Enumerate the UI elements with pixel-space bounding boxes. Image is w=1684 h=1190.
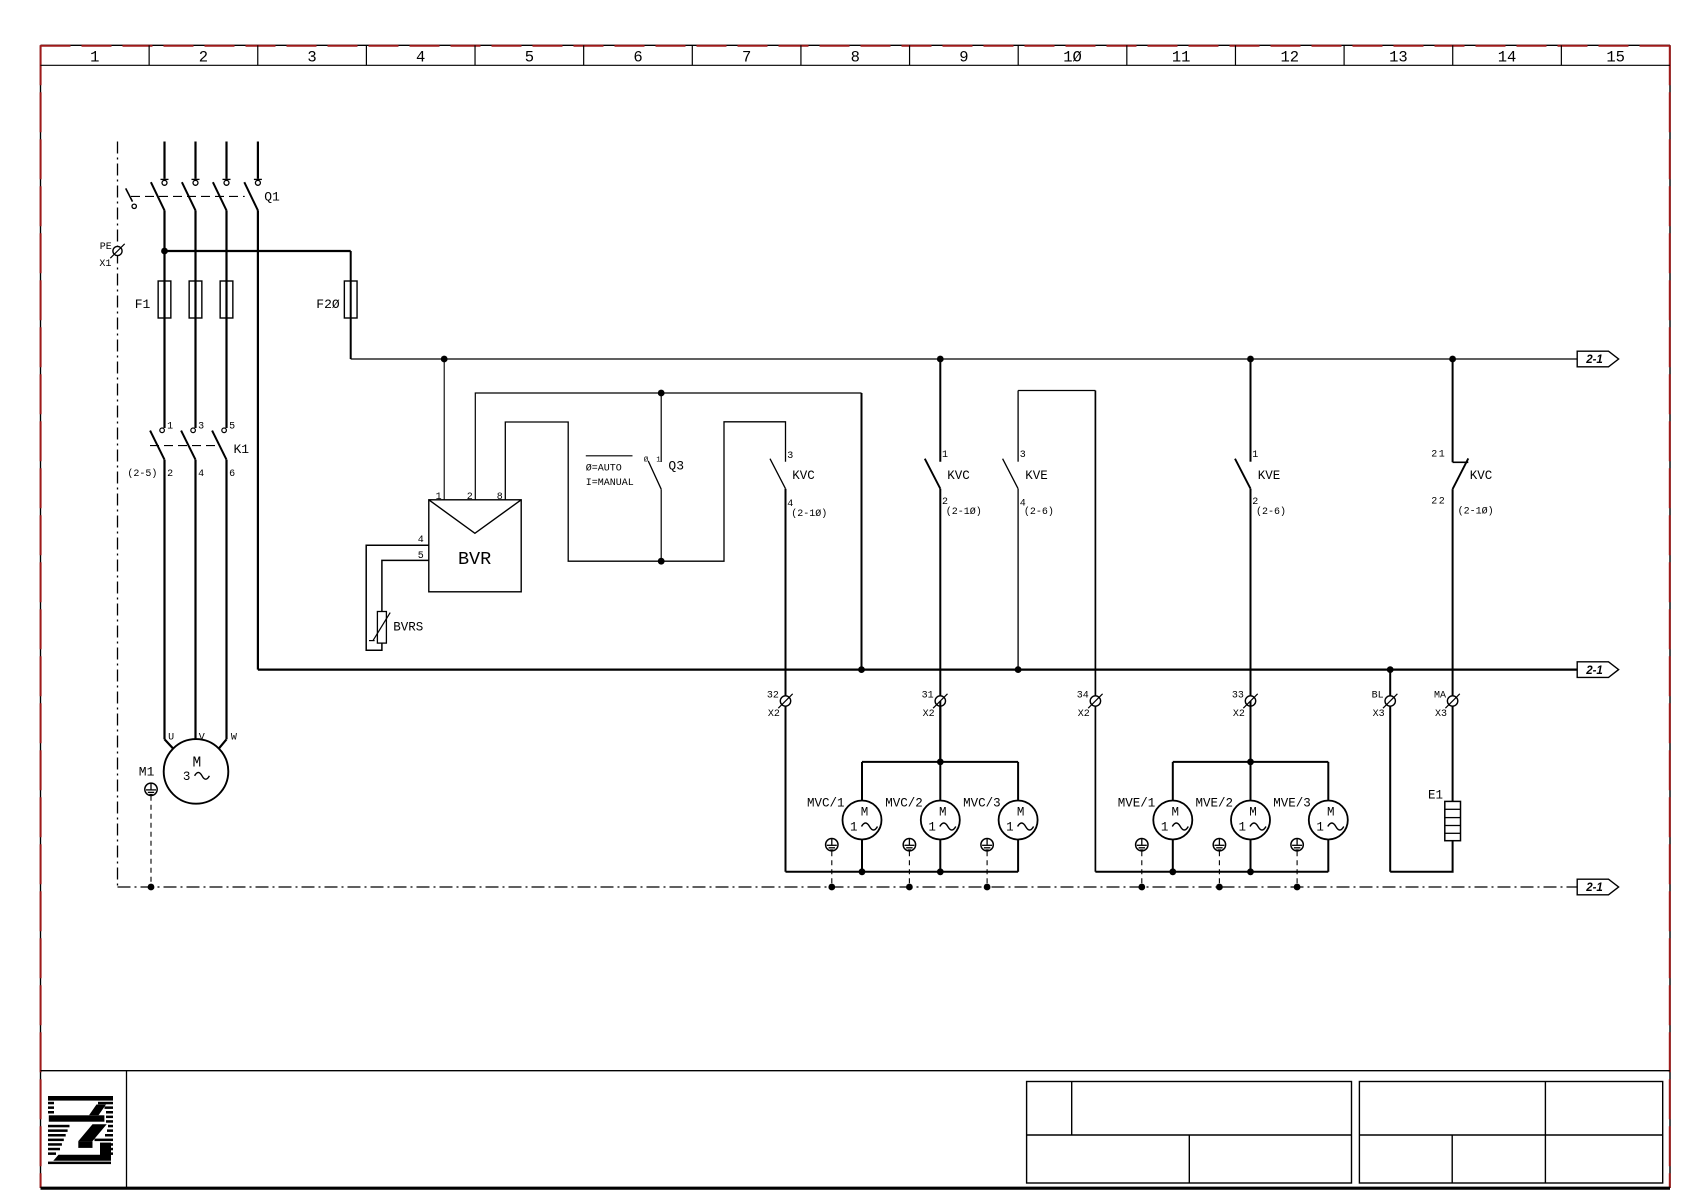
svg-text:(2-5): (2-5) bbox=[127, 468, 157, 480]
wire MVC bracket bbox=[862, 761, 1018, 763]
flag 2-1 bus2 bbox=[1577, 662, 1618, 678]
wire 31 feed to bracket bbox=[939, 701, 941, 762]
main switch Q1 (4-pole) bbox=[126, 180, 261, 210]
wire E1 bottom loop bbox=[1390, 841, 1452, 872]
svg-text:32: 32 bbox=[767, 690, 779, 701]
svg-text:15: 15 bbox=[1606, 48, 1625, 66]
svg-text:PE: PE bbox=[100, 242, 112, 253]
svg-text:(2-1Ø): (2-1Ø) bbox=[791, 508, 827, 520]
svg-text:14: 14 bbox=[1498, 48, 1517, 66]
node bus2 BL bbox=[1387, 666, 1394, 673]
terminal X1 PE bbox=[110, 244, 124, 258]
svg-text:K1: K1 bbox=[234, 442, 250, 457]
wire MVE bracket bbox=[1173, 761, 1329, 763]
controller BVR bbox=[429, 500, 521, 592]
svg-text:U: U bbox=[168, 733, 174, 744]
svg-text:1: 1 bbox=[928, 820, 936, 834]
fuse F1 (3x) bbox=[158, 281, 233, 318]
wire BL branch bbox=[1389, 670, 1391, 872]
motor M1 3-phase bbox=[164, 739, 229, 804]
svg-text:1: 1 bbox=[1006, 820, 1014, 834]
fuse F20 bbox=[344, 281, 357, 318]
svg-text:X2: X2 bbox=[768, 709, 780, 720]
contact KVE 3-4 (col10) bbox=[1003, 391, 1096, 872]
wire BVR pin 5 to BVRS bbox=[382, 560, 429, 611]
svg-text:2-1: 2-1 bbox=[1585, 354, 1603, 366]
svg-text:3: 3 bbox=[787, 451, 793, 462]
svg-text:(2-1Ø): (2-1Ø) bbox=[946, 506, 982, 518]
motor MVC/1 bbox=[843, 762, 882, 872]
label K1 bbox=[234, 442, 250, 457]
svg-text:2: 2 bbox=[199, 48, 208, 66]
terminal X2:31 bbox=[933, 694, 947, 708]
terminal X2:34 bbox=[1088, 694, 1102, 708]
svg-text:12: 12 bbox=[1280, 48, 1299, 66]
title block separator bbox=[41, 1070, 1671, 1072]
svg-text:KVC: KVC bbox=[947, 469, 970, 483]
svg-text:X2: X2 bbox=[1078, 709, 1090, 720]
node Q3 bottom bbox=[658, 558, 665, 565]
label MVE/2 bbox=[1196, 796, 1234, 810]
labels KVE 3 4 (2-6) col10 bbox=[1020, 450, 1054, 518]
terminal X2:32 bbox=[778, 694, 792, 708]
svg-text:9: 9 bbox=[959, 48, 968, 66]
svg-text:1: 1 bbox=[1252, 450, 1258, 461]
contact KVC 21-22 NC (col14) bbox=[1453, 359, 1469, 801]
title block box left bbox=[1027, 1082, 1352, 1184]
node L1 branch bbox=[161, 248, 168, 255]
wires K1 to motor M1 bbox=[165, 460, 227, 749]
sensor BVRS bbox=[369, 612, 390, 644]
wire MVE bottom line bbox=[1173, 871, 1329, 873]
contactor K1 (3-pole) bbox=[150, 428, 227, 460]
label 31 X2 bbox=[922, 690, 935, 720]
svg-text:3: 3 bbox=[1020, 450, 1026, 461]
svg-text:2-1: 2-1 bbox=[1585, 665, 1603, 677]
svg-text:(2-1Ø): (2-1Ø) bbox=[1458, 506, 1494, 518]
svg-text:M: M bbox=[1327, 805, 1335, 819]
earth MVC/3 bbox=[981, 839, 993, 891]
svg-text:M: M bbox=[861, 805, 869, 819]
bus 1 (control supply L) bbox=[351, 358, 1578, 360]
label F1 bbox=[135, 297, 151, 312]
svg-text:1: 1 bbox=[1316, 820, 1324, 834]
node M1 PE bbox=[148, 884, 155, 891]
svg-text:8: 8 bbox=[497, 492, 503, 503]
BVR pin numbers 4 5 bbox=[418, 535, 424, 562]
svg-text:5: 5 bbox=[525, 48, 534, 66]
title block box right bbox=[1359, 1082, 1662, 1184]
contact KVE 1-2 (col12) bbox=[1235, 359, 1251, 762]
label Q1 bbox=[264, 189, 280, 204]
svg-text:Q3: Q3 bbox=[668, 458, 684, 473]
nodes MVE bottom bbox=[1169, 868, 1254, 875]
svg-text:KVE: KVE bbox=[1258, 469, 1281, 483]
svg-text:X3: X3 bbox=[1435, 709, 1447, 720]
wire N-conductor to bus 2 bbox=[257, 210, 259, 669]
logo cell divider bbox=[126, 1071, 128, 1188]
wire phases Q1 to fuses/K1 bbox=[165, 210, 227, 281]
node MVE bracket bbox=[1247, 759, 1254, 766]
svg-text:1: 1 bbox=[850, 820, 858, 834]
svg-text:W: W bbox=[231, 733, 237, 744]
svg-text:1: 1 bbox=[167, 422, 173, 433]
svg-text:MVE/2: MVE/2 bbox=[1196, 796, 1234, 810]
svg-text:MVC/2: MVC/2 bbox=[885, 796, 923, 810]
svg-text:6: 6 bbox=[229, 469, 235, 480]
node MVC bracket bbox=[937, 759, 944, 766]
svg-text:MVE/3: MVE/3 bbox=[1273, 796, 1311, 810]
svg-text:21: 21 bbox=[1431, 449, 1446, 460]
svg-text:3: 3 bbox=[198, 422, 204, 433]
wire MVC bottom line bbox=[862, 871, 1018, 873]
terminal X2:33 bbox=[1243, 694, 1257, 708]
terminal X3:BL bbox=[1383, 694, 1397, 708]
label E1 bbox=[1428, 788, 1443, 802]
header column ruler 1-15 bbox=[41, 45, 1671, 66]
svg-text:7: 7 bbox=[742, 48, 751, 66]
flag 2-1 PE bbox=[1577, 879, 1618, 895]
svg-text:8: 8 bbox=[851, 48, 860, 66]
svg-text:2-1: 2-1 bbox=[1585, 882, 1603, 894]
svg-text:BVR: BVR bbox=[458, 549, 491, 570]
wire BVR pin 4 to BVRS bbox=[366, 545, 429, 650]
Q3 position marks 0 1 bbox=[644, 456, 662, 465]
svg-text:Ø: Ø bbox=[644, 456, 649, 465]
labels KVC 3 4 (2-10) col8 bbox=[787, 451, 827, 520]
svg-text:2: 2 bbox=[167, 469, 173, 480]
svg-text:(2-6): (2-6) bbox=[1024, 506, 1054, 518]
flag 2-1 bus1 bbox=[1577, 351, 1618, 367]
heater E1 bbox=[1445, 801, 1461, 840]
svg-text:3: 3 bbox=[183, 770, 191, 784]
svg-text:1: 1 bbox=[656, 457, 661, 465]
svg-text:MVC/1: MVC/1 bbox=[807, 796, 845, 810]
motor MVC/3 bbox=[999, 762, 1038, 872]
svg-text:4: 4 bbox=[416, 48, 425, 66]
svg-text:33: 33 bbox=[1232, 690, 1244, 701]
svg-text:1: 1 bbox=[1239, 820, 1247, 834]
label MVC/2 bbox=[885, 796, 923, 810]
label 33 X2 bbox=[1232, 690, 1245, 720]
svg-text:MVE/1: MVE/1 bbox=[1118, 796, 1156, 810]
svg-text:X2: X2 bbox=[1233, 709, 1245, 720]
PE dash-dot rail (horizontal) bbox=[118, 886, 1578, 888]
svg-text:M: M bbox=[939, 805, 947, 819]
BVR pin numbers 1 2 8 bbox=[436, 492, 503, 503]
svg-text:1: 1 bbox=[942, 450, 948, 461]
svg-text:M1: M1 bbox=[139, 764, 155, 779]
label (2-5) bbox=[127, 468, 157, 480]
node bus1 col14 bbox=[1449, 356, 1456, 363]
svg-text:1: 1 bbox=[1161, 820, 1169, 834]
wire M1 earth to PE rail bbox=[150, 796, 152, 887]
label MVE/3 bbox=[1273, 796, 1311, 810]
svg-text:13: 13 bbox=[1389, 48, 1408, 66]
labels KVC 21 22 (2-10) col14 bbox=[1431, 449, 1493, 517]
svg-text:MVC/3: MVC/3 bbox=[963, 796, 1001, 810]
earth MVE/3 bbox=[1291, 839, 1303, 891]
earth MVC/1 bbox=[826, 839, 838, 891]
contact KVC 3-4 (col8) bbox=[770, 459, 786, 872]
switch Q3 auto/manual bbox=[648, 393, 661, 561]
node bus1 to BVR pin1 bbox=[441, 356, 448, 363]
svg-text:KVC: KVC bbox=[792, 469, 815, 483]
svg-text:KVC: KVC bbox=[1470, 469, 1493, 483]
svg-text:M: M bbox=[1249, 805, 1257, 819]
bus 2 (neutral) bbox=[258, 668, 1577, 670]
svg-text:(2-6): (2-6) bbox=[1256, 506, 1286, 518]
node bus1 col12 bbox=[1247, 356, 1254, 363]
earth M1 bbox=[145, 783, 157, 795]
svg-text:4: 4 bbox=[418, 535, 424, 546]
svg-text:5: 5 bbox=[418, 551, 424, 562]
labels KVC 1 2 (2-10) col9 bbox=[942, 450, 982, 518]
wire 34 feed down bbox=[1095, 871, 1172, 873]
wires fuses to K1 bbox=[165, 318, 227, 428]
svg-text:34: 34 bbox=[1077, 690, 1089, 701]
svg-text:M: M bbox=[192, 756, 201, 772]
label M1 bbox=[139, 764, 155, 779]
svg-text:3: 3 bbox=[307, 48, 316, 66]
terminal X3:MA bbox=[1445, 694, 1459, 708]
motor MVE/1 bbox=[1153, 762, 1192, 872]
label BVRS bbox=[393, 620, 423, 634]
wire BVR pin 8 net bbox=[505, 422, 785, 561]
motor MVE/3 bbox=[1309, 762, 1348, 872]
svg-text:MA: MA bbox=[1434, 690, 1446, 701]
labels U V W bbox=[168, 733, 237, 744]
label 32 X2 bbox=[767, 690, 780, 720]
label MVC/3 bbox=[963, 796, 1001, 810]
label BL X3 bbox=[1372, 690, 1385, 720]
label Q3 bbox=[668, 458, 684, 473]
wire branch to F20 bbox=[165, 251, 351, 281]
svg-text:6: 6 bbox=[633, 48, 642, 66]
label 34 X2 bbox=[1077, 690, 1090, 720]
label MVC/1 bbox=[807, 796, 845, 810]
svg-text:4: 4 bbox=[198, 469, 204, 480]
svg-text:X1: X1 bbox=[99, 259, 111, 270]
svg-text:1: 1 bbox=[436, 492, 442, 503]
earth MVC/2 bbox=[903, 839, 915, 891]
svg-text:Q1: Q1 bbox=[264, 189, 280, 204]
node Q3 tap bbox=[658, 390, 665, 397]
earth MVE/2 bbox=[1213, 839, 1225, 891]
svg-text:1: 1 bbox=[90, 48, 99, 66]
supply stubs L1-L3+N above Q1 bbox=[161, 142, 262, 180]
svg-text:11: 11 bbox=[1172, 48, 1191, 66]
K1 pin numbers bbox=[167, 422, 235, 480]
node bus1 col9 bbox=[937, 356, 944, 363]
svg-text:M: M bbox=[1017, 805, 1025, 819]
svg-text:F1: F1 bbox=[135, 297, 151, 312]
legend 0=AUTO I=MANUAL bbox=[586, 456, 634, 489]
svg-text:M: M bbox=[1172, 805, 1180, 819]
wire 33 feed to bracket bbox=[1250, 701, 1252, 762]
wire BVR pin 2 net bbox=[475, 393, 861, 670]
label F20 bbox=[316, 297, 340, 312]
motor MVC/2 bbox=[921, 762, 960, 872]
nodes MVC bottom bbox=[859, 868, 944, 875]
PE dash-dot rail (vertical) bbox=[117, 142, 119, 888]
svg-text:2: 2 bbox=[467, 492, 473, 503]
node KVE4 to bus2 bbox=[1015, 666, 1022, 673]
wire BVR pin 1 bbox=[443, 359, 445, 500]
svg-text:KVE: KVE bbox=[1025, 469, 1048, 483]
node pin2-net to bus2 bbox=[858, 666, 865, 673]
motor MVE/2 bbox=[1231, 762, 1270, 872]
svg-text:F2Ø: F2Ø bbox=[316, 297, 340, 312]
svg-text:BL: BL bbox=[1372, 690, 1384, 701]
earth MVE/1 bbox=[1136, 839, 1148, 891]
company logo bbox=[48, 1096, 113, 1164]
wire F20 to bus 1 bbox=[350, 318, 352, 359]
svg-text:X3: X3 bbox=[1373, 709, 1385, 720]
svg-text:BVRS: BVRS bbox=[393, 620, 423, 634]
contact KVC 1-2 (col9) bbox=[925, 359, 941, 762]
svg-text:1Ø: 1Ø bbox=[1063, 48, 1082, 66]
wire 32 feed down bbox=[786, 871, 863, 873]
svg-text:E1: E1 bbox=[1428, 788, 1443, 802]
label MA X3 bbox=[1434, 690, 1447, 720]
svg-text:Ø=AUTO: Ø=AUTO bbox=[586, 463, 622, 475]
svg-text:22: 22 bbox=[1431, 497, 1446, 508]
svg-text:I=MANUAL: I=MANUAL bbox=[586, 478, 634, 489]
svg-text:5: 5 bbox=[229, 422, 235, 433]
label PE X1 bbox=[99, 242, 111, 270]
labels KVE 1 2 (2-6) col12 bbox=[1252, 450, 1286, 518]
svg-text:31: 31 bbox=[922, 690, 934, 701]
label MVE/1 bbox=[1118, 796, 1156, 810]
svg-text:X2: X2 bbox=[923, 709, 935, 720]
